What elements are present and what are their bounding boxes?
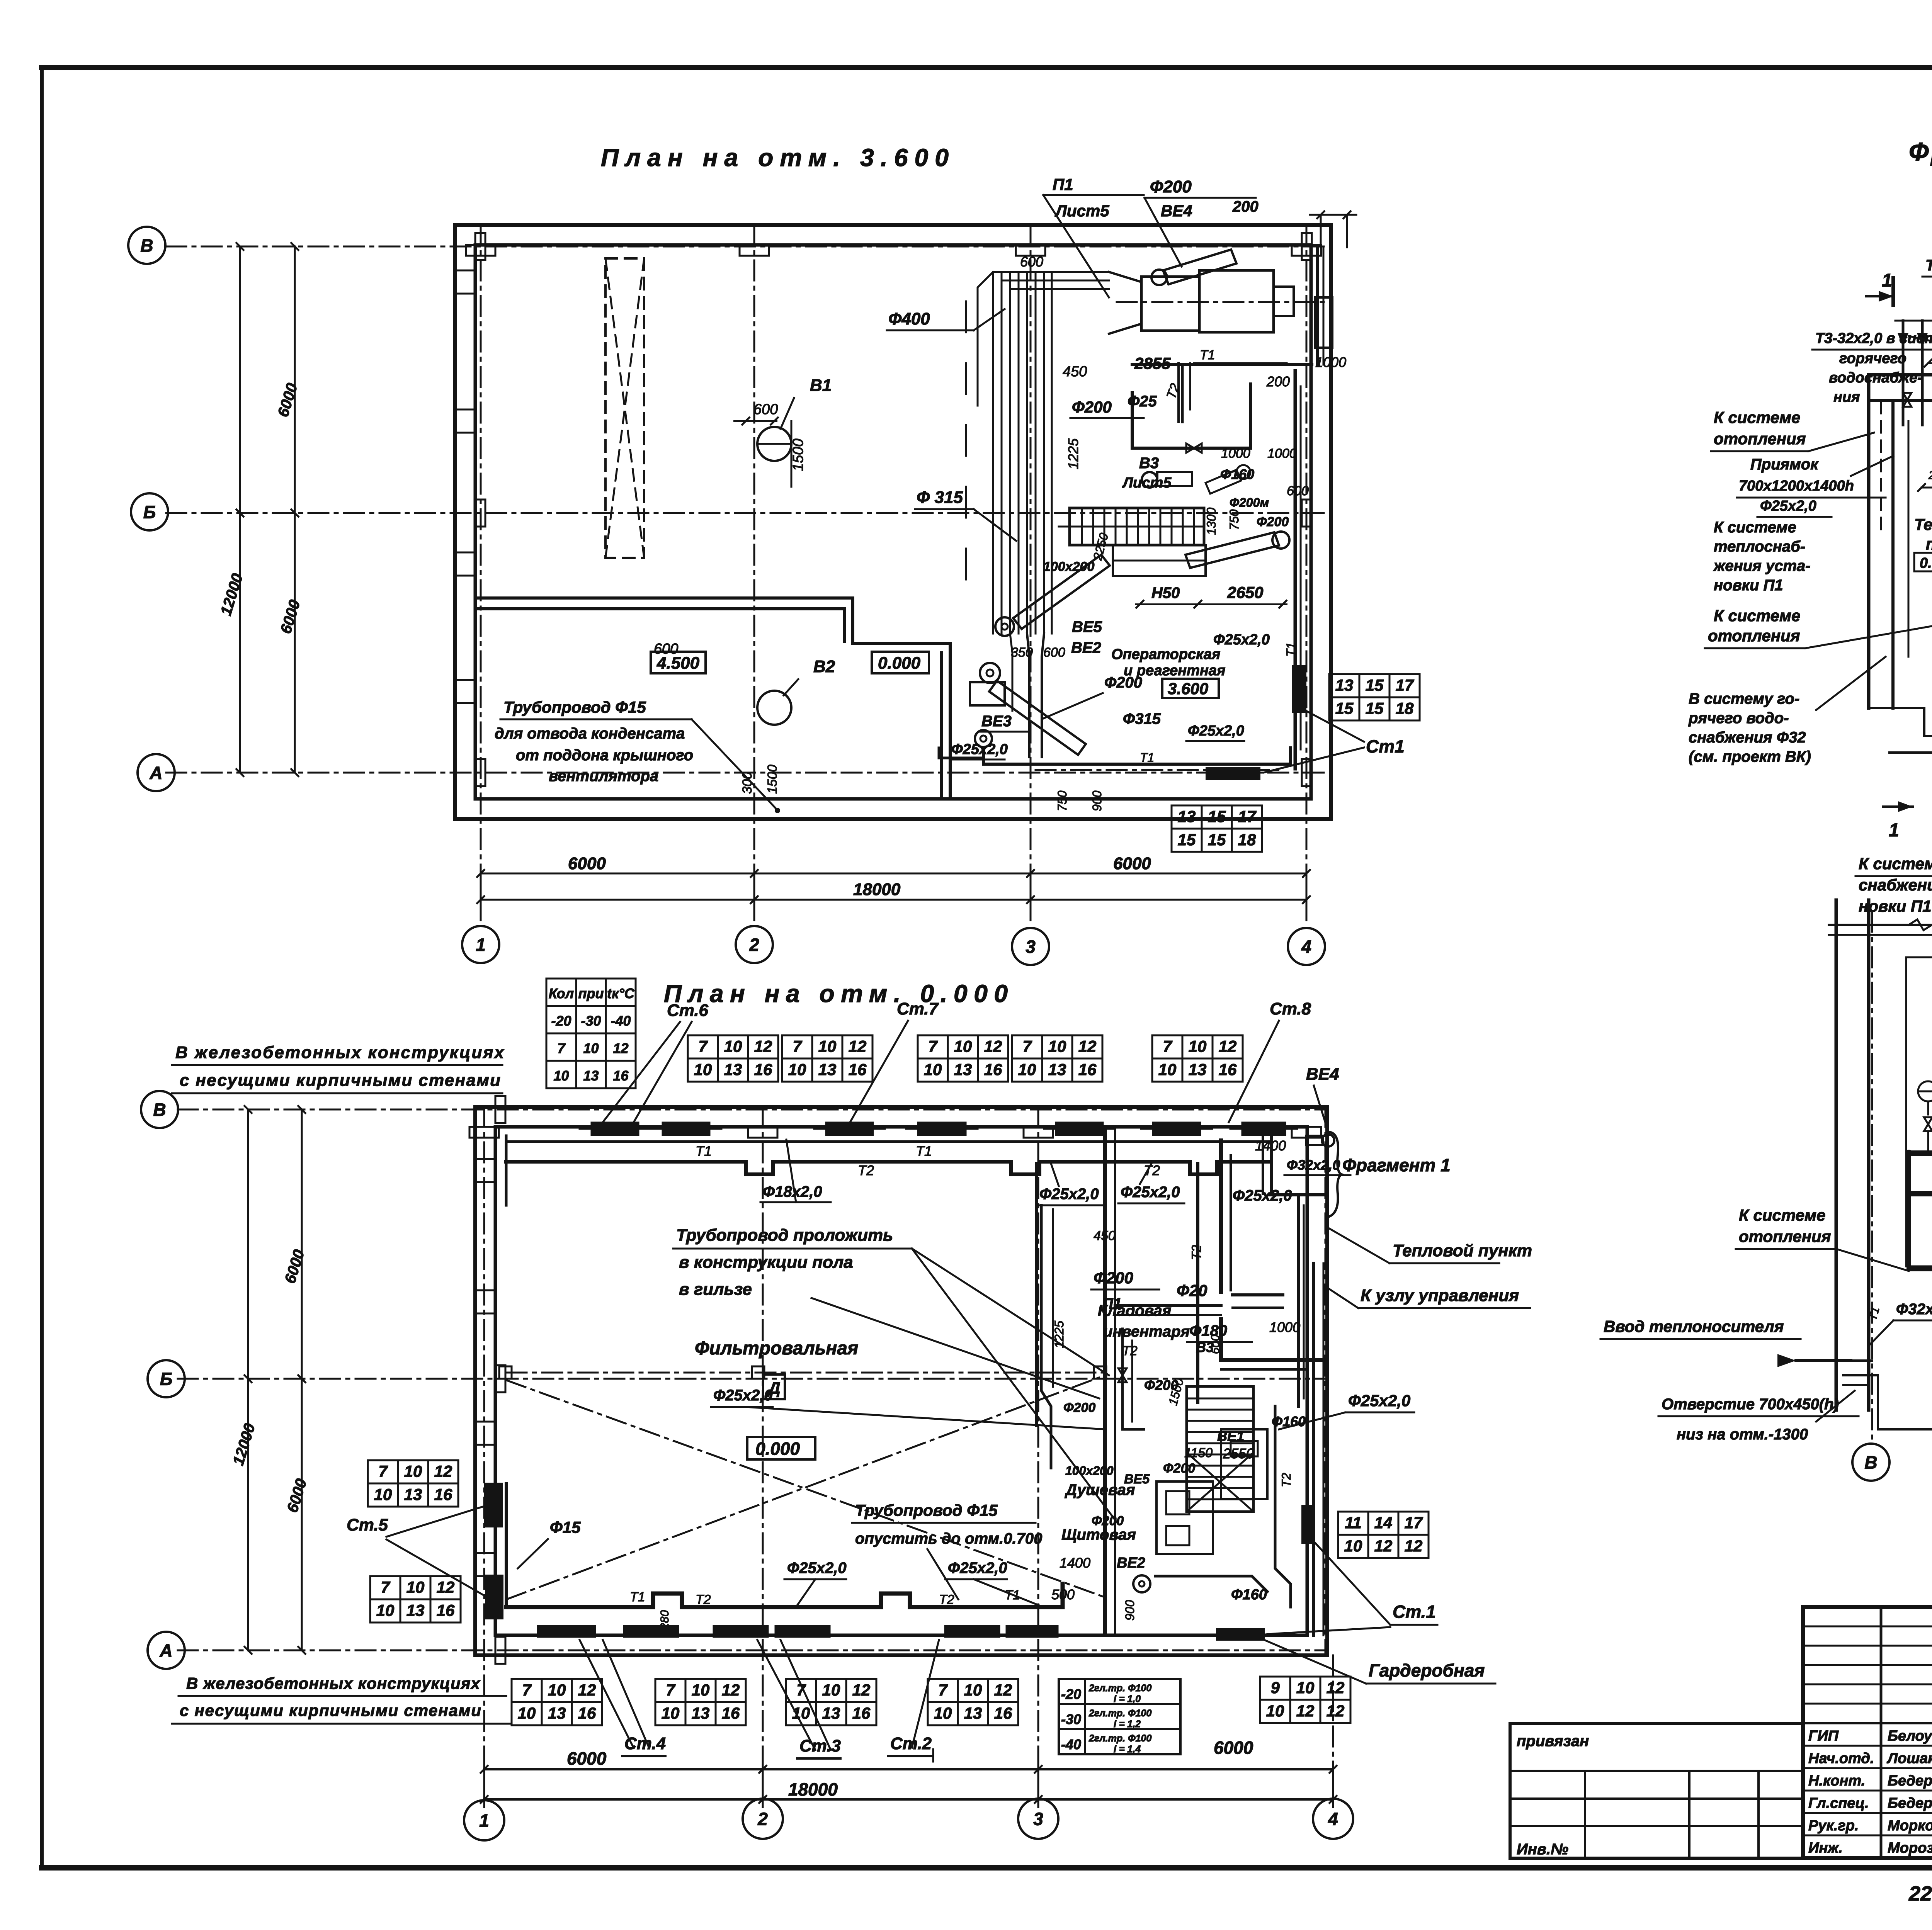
svg-text:450: 450: [1094, 1228, 1116, 1243]
svg-text:l = 1,0: l = 1,0: [1114, 1694, 1141, 1704]
svg-text:12: 12: [1374, 1537, 1393, 1555]
svg-text:Ф180: Ф180: [1189, 1322, 1227, 1339]
svg-text:16: 16: [754, 1060, 772, 1079]
svg-text:7: 7: [378, 1462, 388, 1480]
svg-text:16: 16: [984, 1060, 1002, 1079]
svg-text:В3: В3: [1196, 1339, 1214, 1355]
svg-text:12: 12: [1219, 1037, 1237, 1055]
svg-text:14: 14: [1374, 1514, 1393, 1532]
svg-text:1: 1: [476, 935, 486, 955]
main pipes: [1909, 1150, 1932, 1156]
svg-text:с несущими кирпичными стенами: с несущими кирпичными стенами: [180, 1701, 481, 1719]
svg-text:Т1-38х2,0: Т1-38х2,0: [1925, 257, 1932, 274]
svg-text:12: 12: [437, 1578, 455, 1596]
bottom tables: [512, 1679, 602, 1725]
svg-text:0.000: 0.000: [1920, 555, 1932, 571]
right rooms walls: [1103, 1127, 1107, 1635]
svg-text:12: 12: [1327, 1702, 1345, 1720]
svg-text:18000: 18000: [788, 1779, 838, 1799]
svg-text:18: 18: [1396, 699, 1414, 717]
svg-text:1: 1: [1882, 270, 1892, 291]
upper plan left dims: [239, 246, 241, 773]
svg-text:Т2: Т2: [939, 1592, 954, 1607]
svg-text:Т2: Т2: [1279, 1473, 1293, 1487]
svg-text:П1: П1: [1102, 1295, 1122, 1312]
svg-text:Гл.спец.: Гл.спец.: [1808, 1795, 1869, 1811]
svg-text:1400: 1400: [1060, 1555, 1090, 1571]
svg-text:Ф25х2,0: Ф25х2,0: [1039, 1186, 1099, 1203]
svg-text:7: 7: [1022, 1037, 1032, 1055]
svg-text:Ф25х2,0: Ф25х2,0: [951, 741, 1008, 758]
svg-text:Морозова: Морозова: [1888, 1840, 1932, 1856]
svg-text:для отвода конденсата: для отвода конденсата: [495, 725, 685, 742]
svg-text:Щитовая: Щитовая: [1061, 1526, 1136, 1543]
svg-text:ВЕ4: ВЕ4: [1161, 202, 1192, 220]
svg-text:13: 13: [548, 1704, 566, 1722]
svg-text:700х1200х1400h: 700х1200х1400h: [1739, 478, 1854, 494]
svg-text:10: 10: [788, 1060, 806, 1079]
fragment walls: [1869, 373, 1932, 377]
VE2 fan + duct: [980, 663, 1000, 683]
svg-text:горячего: горячего: [1839, 350, 1906, 367]
svg-text:и реагентная: и реагентная: [1124, 663, 1225, 679]
svg-text:Ф25х2,0: Ф25х2,0: [948, 1560, 1007, 1577]
lower stairs: [1187, 1386, 1253, 1512]
svg-text:отопления: отопления: [1708, 627, 1800, 645]
svg-text:350: 350: [1011, 645, 1033, 660]
svg-text:18000: 18000: [853, 880, 901, 899]
svg-text:Ф160: Ф160: [1220, 466, 1254, 482]
svg-text:9: 9: [1270, 1679, 1280, 1697]
svg-text:10: 10: [1158, 1060, 1177, 1079]
svg-text:Ст.3: Ст.3: [799, 1736, 841, 1755]
svg-text:А: А: [159, 1641, 172, 1661]
fragment dim row: [1922, 487, 1932, 489]
svg-text:22529-02: 22529-02: [1908, 1882, 1932, 1905]
svg-text:16: 16: [613, 1068, 629, 1084]
svg-text:Ф25х2,0: Ф25х2,0: [1760, 498, 1816, 514]
svg-text:l = 1,4: l = 1,4: [1114, 1744, 1141, 1755]
svg-text:-40: -40: [1061, 1736, 1081, 1752]
lower plan bottom dims: [484, 1768, 1333, 1770]
svg-text:В: В: [153, 1100, 166, 1120]
svg-text:12: 12: [852, 1681, 871, 1699]
svg-text:12: 12: [1296, 1702, 1315, 1720]
fragment bottom steps: [1869, 708, 1932, 753]
svg-text:Т1: Т1: [1140, 751, 1154, 765]
svg-text:Ф32х2,0: Ф32х2,0: [1287, 1157, 1340, 1173]
svg-text:новки П1: новки П1: [1714, 577, 1783, 594]
svg-text:П1: П1: [1053, 175, 1073, 194]
svg-text:Кол: Кол: [549, 985, 574, 1001]
svg-text:1150: 1150: [1184, 1446, 1213, 1460]
tables above lower plan: [688, 1035, 778, 1082]
svg-text:240: 240: [1928, 469, 1932, 482]
VE4 slanted duct: [1163, 250, 1236, 284]
svg-text:ВЕ5: ВЕ5: [1124, 1472, 1150, 1487]
svg-text:7: 7: [1163, 1037, 1172, 1055]
wall window marks: [455, 270, 475, 294]
fragment pipes: [1902, 321, 1905, 425]
svg-text:13: 13: [583, 1068, 599, 1084]
fan unit P1: [1109, 272, 1141, 334]
svg-text:13: 13: [1189, 1060, 1207, 1079]
svg-text:В систему го-: В систему го-: [1689, 690, 1799, 707]
svg-text:В3: В3: [1139, 455, 1159, 472]
svg-text:7: 7: [793, 1037, 802, 1055]
VE1 slanted duct: [1185, 532, 1279, 568]
svg-text:10: 10: [1266, 1702, 1284, 1720]
svg-text:2гл.тр. Ф100: 2гл.тр. Ф100: [1088, 1733, 1151, 1744]
svg-text:Ст.6: Ст.6: [667, 1001, 709, 1020]
svg-text:10: 10: [724, 1037, 742, 1055]
svg-text:600: 600: [1287, 484, 1309, 498]
svg-text:10: 10: [694, 1060, 712, 1079]
svg-text:Ф200: Ф200: [1092, 1514, 1124, 1528]
svg-text:Ст.7: Ст.7: [897, 999, 939, 1018]
svg-text:16: 16: [722, 1704, 740, 1722]
svg-text:13: 13: [822, 1704, 840, 1722]
svg-text:2: 2: [749, 935, 759, 955]
svg-text:600: 600: [1043, 645, 1065, 660]
svg-text:12: 12: [578, 1681, 596, 1699]
svg-text:Ф 315: Ф 315: [917, 488, 963, 507]
svg-text:16: 16: [852, 1704, 871, 1722]
svg-text:12: 12: [1327, 1679, 1345, 1697]
B1 B2 circles: [757, 427, 791, 461]
lower plan outer walls: [475, 1107, 1327, 1655]
svg-text:13: 13: [406, 1601, 425, 1619]
black radiators lower right: [1302, 1506, 1313, 1543]
svg-text:Ф32х2,0: Ф32х2,0: [1896, 1301, 1932, 1318]
sheet frame: [42, 65, 1932, 70]
svg-text:К системе: К системе: [1714, 408, 1800, 426]
svg-text:12: 12: [754, 1037, 772, 1055]
svg-text:1000: 1000: [1267, 446, 1297, 461]
svg-text:1000: 1000: [1269, 1319, 1300, 1335]
svg-text:Ст.5: Ст.5: [347, 1515, 388, 1534]
svg-text:низ на отм.-1300: низ на отм.-1300: [1677, 1426, 1808, 1443]
svg-text:Т1: Т1: [1200, 348, 1215, 362]
svg-text:1300: 1300: [1204, 508, 1218, 535]
svg-text:ВЕ4: ВЕ4: [1306, 1065, 1339, 1084]
svg-text:Лошакова: Лошакова: [1886, 1750, 1932, 1767]
svg-text:13: 13: [692, 1704, 710, 1722]
svg-text:Т2: Т2: [1122, 1344, 1138, 1358]
svg-text:В железобетонных конструкциях: В железобетонных конструкциях: [186, 1674, 481, 1692]
svg-text:Т1: Т1: [916, 1143, 932, 1159]
svg-text:Фильтровальная: Фильтровальная: [695, 1338, 858, 1359]
svg-text:900: 900: [1090, 790, 1104, 811]
svg-text:Ф200м: Ф200м: [1230, 496, 1269, 510]
svg-text:1000: 1000: [1221, 446, 1250, 461]
svg-text:10: 10: [518, 1704, 536, 1722]
svg-text:в конструкции пола: в конструкции пола: [679, 1253, 853, 1272]
svg-text:17: 17: [1238, 807, 1257, 826]
svg-text:Ст.2: Ст.2: [890, 1734, 932, 1753]
svg-text:1: 1: [1889, 820, 1899, 841]
svg-text:15: 15: [1208, 831, 1226, 849]
upper plan bottom axis circles: [462, 926, 499, 963]
VE3 fan: [975, 730, 992, 747]
svg-text:Ф160: Ф160: [1272, 1414, 1306, 1429]
svg-text:Ф160: Ф160: [1231, 1587, 1267, 1603]
equipment frame: [1906, 957, 1932, 1266]
tables 13 15 17 upper: [1329, 674, 1420, 720]
svg-text:В железобетонных конструкциях: В железобетонных конструкциях: [175, 1043, 505, 1062]
svg-text:Ф200: Ф200: [1257, 515, 1289, 529]
svg-text:К системе: К системе: [1739, 1206, 1825, 1224]
svg-text:10: 10: [954, 1037, 972, 1055]
svg-text:ния: ния: [1833, 389, 1860, 405]
svg-text:Гардеробная: Гардеробная: [1369, 1660, 1485, 1680]
svg-text:вентилятора: вентилятора: [549, 768, 658, 785]
svg-text:600: 600: [654, 641, 678, 657]
svg-text:Бедеров: Бедеров: [1888, 1795, 1932, 1811]
svg-text:7: 7: [938, 1681, 948, 1699]
roof fan opening dashed: [605, 258, 644, 558]
svg-text:16: 16: [1078, 1060, 1097, 1079]
svg-text:Ф200: Ф200: [1163, 1461, 1195, 1476]
svg-text:Ф25х2,0: Ф25х2,0: [787, 1560, 847, 1577]
svg-text:-20: -20: [1061, 1686, 1081, 1702]
svg-text:200: 200: [1232, 198, 1259, 215]
svg-text:15: 15: [1208, 807, 1226, 826]
svg-text:2гл.тр. Ф100: 2гл.тр. Ф100: [1088, 1683, 1151, 1694]
svg-text:10: 10: [406, 1578, 425, 1596]
V3 unit: [1142, 472, 1157, 488]
svg-text:6000: 6000: [567, 1748, 607, 1769]
svg-text:13: 13: [1335, 676, 1354, 694]
lower plan left dims: [247, 1109, 249, 1650]
svg-text:Нач.отд.: Нач.отд.: [1808, 1750, 1874, 1767]
svg-text:10: 10: [934, 1704, 952, 1722]
svg-text:-20: -20: [551, 1013, 571, 1029]
svg-text:16: 16: [437, 1601, 455, 1619]
svg-text:Рук.гр.: Рук.гр.: [1808, 1818, 1859, 1834]
svg-text:Ф25х2,0: Ф25х2,0: [1188, 723, 1244, 739]
title block: [1803, 1607, 1932, 1858]
svg-text:16: 16: [994, 1704, 1012, 1722]
svg-text:Ф315: Ф315: [1123, 710, 1161, 727]
svg-text:К системе тепло-: К системе тепло-: [1859, 855, 1932, 873]
valves row: [1924, 1117, 1932, 1131]
svg-text:жения уста-: жения уста-: [1713, 557, 1811, 574]
svg-text:Ввод теплоносителя: Ввод теплоносителя: [1604, 1317, 1784, 1335]
svg-text:-30: -30: [1061, 1711, 1081, 1727]
svg-text:7: 7: [522, 1681, 532, 1699]
svg-text:17: 17: [1396, 676, 1414, 694]
svg-text:снабжения Ф32: снабжения Ф32: [1689, 729, 1806, 746]
svg-text:Приямок: Приямок: [1750, 456, 1819, 473]
svg-text:Трубопровод Ф15: Трубопровод Ф15: [855, 1501, 998, 1519]
upper plan outer walls: [455, 225, 1331, 819]
svg-text:Ф18х2,0: Ф18х2,0: [763, 1183, 822, 1200]
svg-text:10: 10: [376, 1601, 395, 1619]
svg-text:10: 10: [1296, 1679, 1315, 1697]
svg-text:В1: В1: [810, 376, 832, 395]
svg-text:6000: 6000: [1214, 1738, 1253, 1758]
svg-text:Инв.№: Инв.№: [1517, 1841, 1568, 1858]
upper stairs: [1070, 508, 1204, 545]
svg-text:4: 4: [1301, 937, 1311, 957]
svg-text:Тепловой пункт: Тепловой пункт: [1393, 1241, 1532, 1260]
upper plan bottom dim lines: [481, 873, 1306, 875]
svg-text:Ф25х2,0: Ф25х2,0: [713, 1387, 773, 1404]
svg-text:Ф200: Ф200: [1150, 177, 1192, 196]
svg-text:10: 10: [818, 1037, 837, 1055]
svg-text:450: 450: [1063, 364, 1087, 380]
svg-text:10: 10: [924, 1060, 942, 1079]
svg-text:Бедеров: Бедеров: [1888, 1773, 1932, 1789]
svg-text:1500: 1500: [790, 438, 806, 471]
svg-text:12: 12: [984, 1037, 1002, 1055]
svg-text:Н50: Н50: [1151, 584, 1180, 601]
svg-text:12: 12: [849, 1037, 867, 1055]
svg-text:10: 10: [662, 1704, 680, 1722]
pipes right side upper plan: [1132, 384, 1250, 448]
ducts top-right room: [1177, 363, 1180, 422]
svg-text:3.600: 3.600: [1168, 680, 1208, 698]
heating main top: [506, 1140, 1271, 1143]
upper plan boxed levels: [651, 652, 706, 673]
svg-text:1225: 1225: [1065, 438, 1081, 469]
svg-text:10: 10: [822, 1681, 840, 1699]
svg-text:12: 12: [613, 1040, 628, 1056]
svg-text:12: 12: [994, 1681, 1012, 1699]
svg-text:Ф400: Ф400: [888, 309, 930, 328]
svg-text:Т2: Т2: [1189, 1245, 1204, 1260]
svg-text:снабжения уста-: снабжения уста-: [1859, 876, 1932, 894]
svg-text:15: 15: [1335, 699, 1354, 717]
svg-text:tк°С: tк°С: [607, 985, 635, 1001]
svg-text:от поддона крышного: от поддона крышного: [516, 747, 693, 764]
svg-text:Фрагмент 1: Фрагмент 1: [1909, 137, 1932, 166]
svg-text:Инж.: Инж.: [1808, 1840, 1843, 1856]
svg-text:Т1: Т1: [1284, 642, 1298, 657]
svg-text:10: 10: [404, 1462, 422, 1480]
svg-text:привязан: привязан: [1517, 1733, 1589, 1750]
svg-text:2855: 2855: [1134, 354, 1171, 372]
svg-text:Фрагмент 1: Фрагмент 1: [1342, 1155, 1451, 1175]
operator room wall: [1132, 363, 1312, 366]
bottom radiators: [537, 1626, 595, 1637]
svg-text:Т3-32х2,0 в систему: Т3-32х2,0 в систему: [1815, 330, 1932, 347]
svg-text:Ф200: Ф200: [1094, 1269, 1133, 1287]
svg-text:В: В: [1864, 1453, 1877, 1473]
svg-text:ВЕ2: ВЕ2: [1117, 1555, 1145, 1571]
svg-text:7: 7: [666, 1681, 675, 1699]
manometers: [1918, 1081, 1932, 1101]
svg-text:инвентаря: инвентаря: [1103, 1323, 1190, 1340]
svg-text:Ф20: Ф20: [1177, 1281, 1207, 1300]
svg-text:Трубопровод проложить: Трубопровод проложить: [676, 1226, 893, 1245]
svg-text:100х200: 100х200: [1043, 559, 1094, 574]
svg-text:600: 600: [1020, 254, 1043, 270]
svg-text:опустить до отм.0.700: опустить до отм.0.700: [855, 1530, 1042, 1547]
svg-text:13: 13: [954, 1060, 972, 1079]
svg-text:2650: 2650: [1227, 583, 1263, 601]
svg-text:ВЕ1: ВЕ1: [1217, 1428, 1244, 1444]
svg-text:13: 13: [1178, 807, 1196, 826]
svg-text:15: 15: [1178, 831, 1196, 849]
svg-text:1000: 1000: [1315, 354, 1346, 370]
svg-text:10: 10: [374, 1485, 392, 1504]
svg-text:7: 7: [557, 1040, 566, 1056]
svg-text:900: 900: [1123, 1600, 1137, 1621]
svg-text:750: 750: [1055, 790, 1069, 811]
svg-text:Ст.8: Ст.8: [1270, 999, 1311, 1018]
svg-text:-30: -30: [581, 1013, 601, 1029]
svg-text:13: 13: [818, 1060, 837, 1079]
svg-text:200: 200: [1266, 374, 1290, 389]
svg-text:13: 13: [404, 1485, 422, 1504]
special table: [1059, 1679, 1180, 1754]
VE5 fan + duct: [995, 617, 1014, 636]
duct riser bundle F400/F315: [992, 272, 994, 634]
svg-text:Т2: Т2: [858, 1162, 874, 1178]
svg-text:Морковкина: Морковкина: [1888, 1818, 1932, 1834]
svg-text:1500: 1500: [765, 765, 780, 794]
svg-text:в гильзе: в гильзе: [679, 1280, 752, 1299]
svg-text:l = 1,2: l = 1,2: [1114, 1719, 1141, 1730]
svg-text:рячего водо-: рячего водо-: [1688, 710, 1789, 727]
shower fixtures: [1156, 1481, 1213, 1554]
svg-text:10: 10: [553, 1068, 569, 1084]
svg-text:Отверстие 700х450(h): Отверстие 700х450(h): [1662, 1396, 1839, 1413]
svg-text:10: 10: [548, 1681, 566, 1699]
monorail crane dashed: [507, 1372, 1102, 1374]
bottom run: [1909, 1252, 1932, 1269]
svg-text:2гл.тр. Ф100: 2гл.тр. Ф100: [1088, 1708, 1151, 1719]
svg-text:16: 16: [578, 1704, 596, 1722]
svg-text:16: 16: [849, 1060, 867, 1079]
svg-text:Лист5: Лист5: [1054, 202, 1109, 220]
svg-text:(см. проект ВК): (см. проект ВК): [1689, 748, 1811, 765]
svg-text:15: 15: [1366, 676, 1384, 694]
svg-text:А: А: [149, 763, 162, 783]
svg-text:11: 11: [1345, 1514, 1362, 1532]
svg-text:отопления: отопления: [1714, 430, 1806, 448]
svg-text:Ст1: Ст1: [1366, 736, 1405, 756]
svg-text:ВЕ3: ВЕ3: [981, 713, 1012, 730]
svg-text:12: 12: [722, 1681, 740, 1699]
svg-text:10: 10: [1189, 1037, 1207, 1055]
svg-text:ГИП: ГИП: [1808, 1728, 1839, 1744]
svg-text:13: 13: [964, 1704, 982, 1722]
svg-text:6000: 6000: [568, 854, 606, 873]
svg-text:16: 16: [1219, 1060, 1237, 1079]
svg-text:7: 7: [381, 1578, 390, 1596]
svg-text:Т1: Т1: [696, 1143, 712, 1159]
svg-text:Белоус: Белоус: [1888, 1728, 1932, 1744]
lower plan axes: [178, 1109, 1327, 1111]
svg-text:Т2: Т2: [696, 1592, 711, 1607]
svg-text:10: 10: [692, 1681, 710, 1699]
svg-text:10: 10: [964, 1681, 982, 1699]
svg-text:2: 2: [757, 1809, 768, 1829]
svg-text:100х200: 100х200: [1065, 1464, 1114, 1478]
svg-text:ВЕ5: ВЕ5: [1072, 618, 1102, 635]
svg-text:Лист5: Лист5: [1122, 475, 1172, 491]
section marks: [1891, 278, 1895, 305]
svg-text:Ф25: Ф25: [1128, 393, 1157, 410]
svg-text:Ф25х2,0: Ф25х2,0: [1348, 1391, 1410, 1410]
svg-text:К системе: К системе: [1714, 607, 1800, 625]
svg-text:Т1: Т1: [630, 1590, 645, 1604]
svg-text:500: 500: [1051, 1587, 1075, 1602]
svg-text:12: 12: [1078, 1037, 1097, 1055]
